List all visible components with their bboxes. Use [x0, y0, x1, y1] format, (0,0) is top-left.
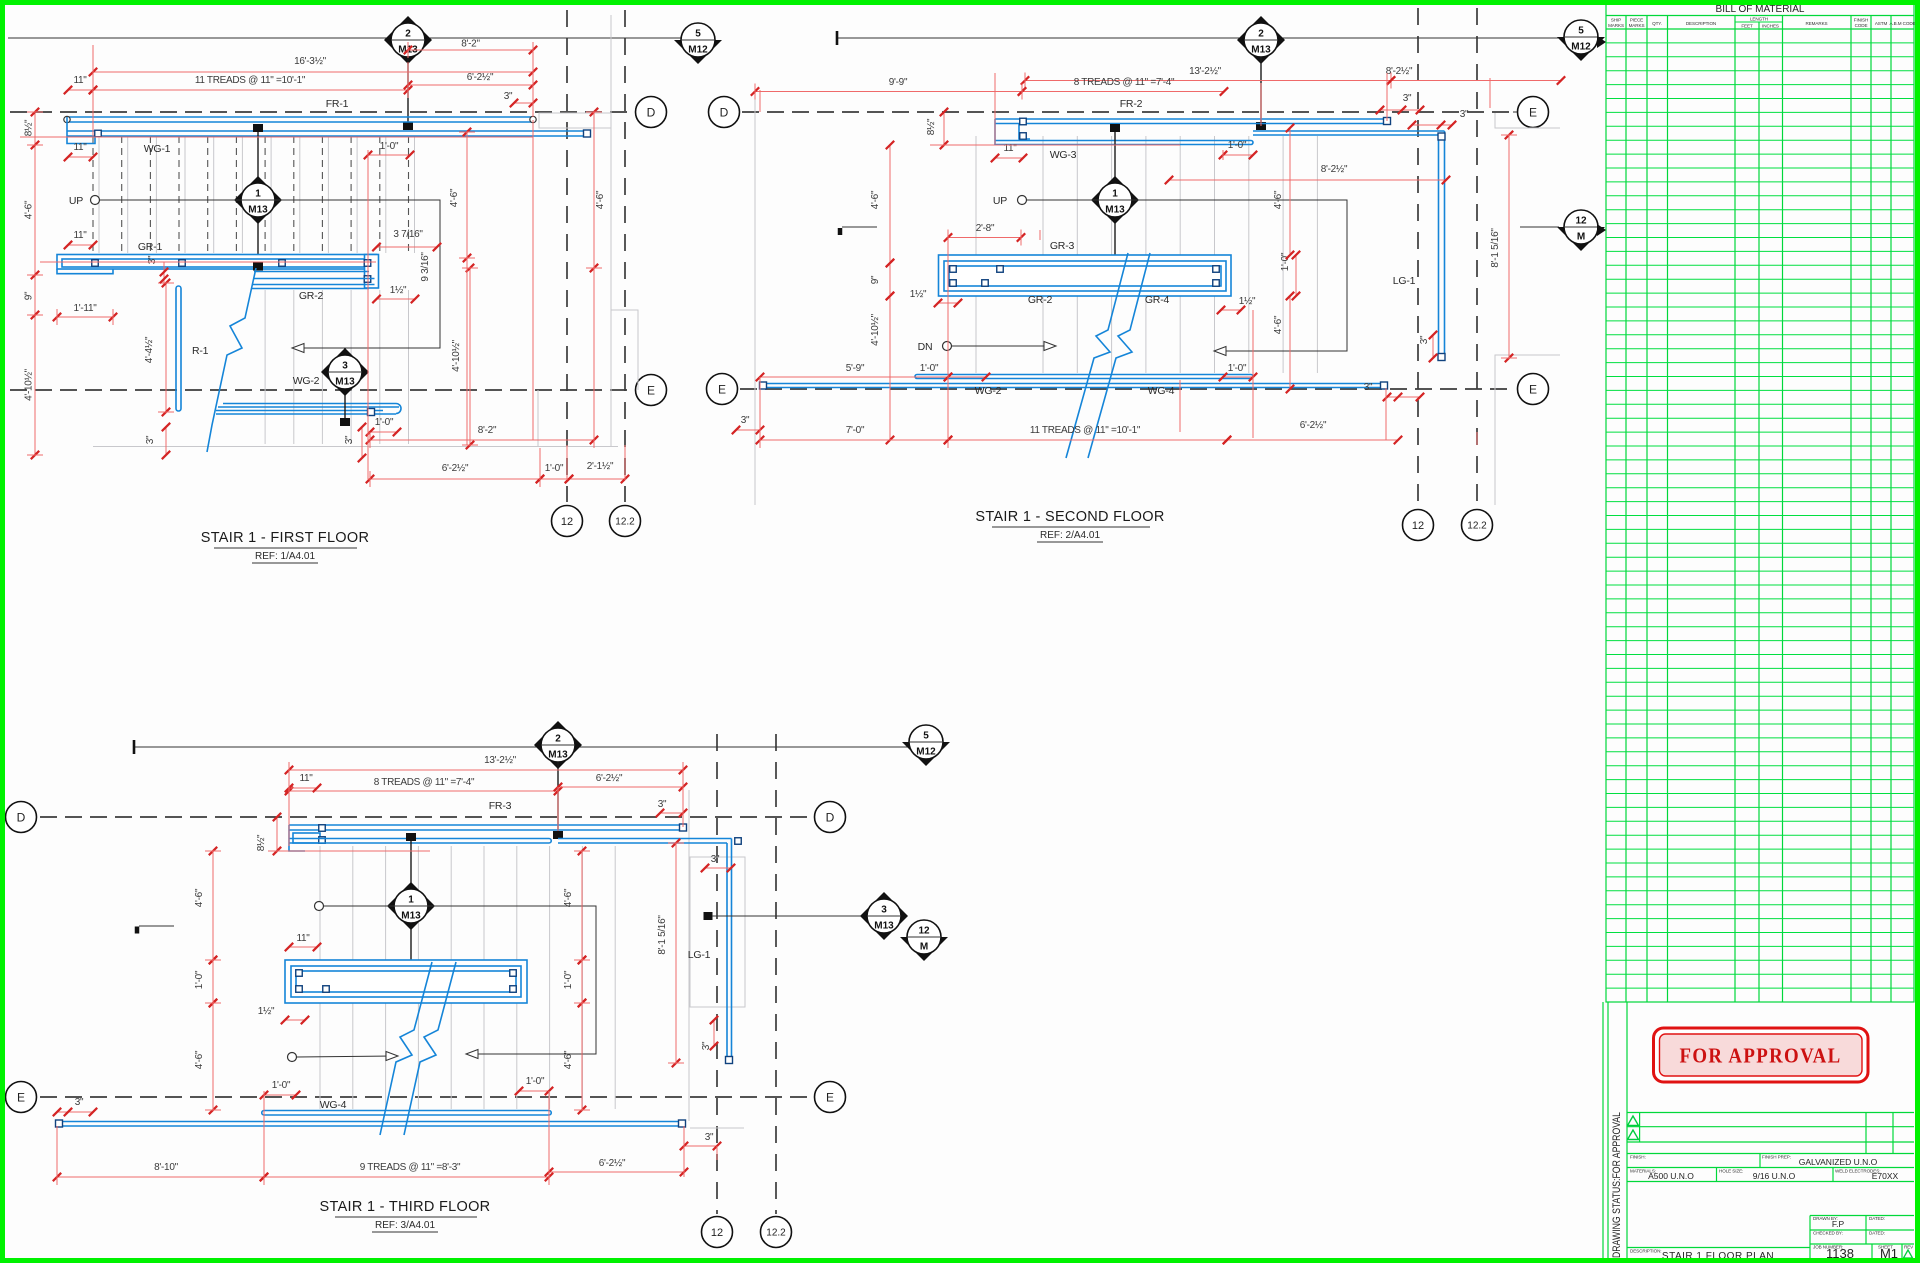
svg-text:4'-6": 4'-6" — [449, 188, 460, 207]
svg-text:1: 1 — [255, 189, 261, 200]
dimension 3 top right (third floor) — [660, 812, 683, 814]
grid bubble E (third floor left) — [6, 1082, 37, 1113]
svg-text:CODE: CODE — [1855, 23, 1868, 28]
svg-text:GR-3: GR-3 — [1050, 240, 1075, 252]
svg-text:4'-6": 4'-6" — [595, 190, 606, 209]
dimension 3 (first floor top right) — [514, 102, 533, 104]
stringer WG-4 upper chord (third floor) — [264, 1110, 549, 1112]
stringer WG-4 long chord (third floor) — [57, 1121, 684, 1123]
svg-text:9 3/16": 9 3/16" — [420, 252, 431, 282]
svg-text:6'-2½": 6'-2½" — [442, 463, 469, 474]
svg-text:3": 3" — [1364, 382, 1373, 393]
red extension lines (first floor) — [93, 45, 625, 480]
BOM table row lines — [1606, 43, 1914, 988]
stringer FR-2 top flange (second floor) — [995, 118, 1387, 120]
leader to balloon 3/M13 (third floor) — [704, 912, 713, 920]
svg-text:4'-6": 4'-6" — [870, 190, 881, 209]
svg-text:13'-2½": 13'-2½" — [1189, 66, 1221, 77]
section balloon 5/M12 (third floor) — [902, 742, 950, 766]
svg-text:9'-9": 9'-9" — [889, 77, 908, 88]
svg-text:M12: M12 — [1571, 42, 1591, 53]
svg-text:1'-0": 1'-0" — [194, 970, 205, 989]
section balloon 1/M13 (third floor) — [410, 840, 412, 970]
grid bubble 12.2 (first floor) — [610, 506, 641, 537]
svg-text:8'-2": 8'-2" — [461, 39, 480, 50]
svg-text:M12: M12 — [688, 45, 708, 56]
svg-text:8½": 8½" — [24, 119, 35, 136]
svg-text:6'-2½": 6'-2½" — [467, 72, 494, 83]
left dimension chain (first floor) — [34, 112, 36, 455]
grid line 12.2 (second floor) — [1476, 8, 1478, 508]
stringer FR-1 lower chord (first floor) — [67, 130, 587, 132]
svg-text:2: 2 — [405, 29, 411, 40]
svg-text:DN: DN — [918, 341, 933, 353]
red extension lines (second floor) — [760, 73, 1509, 445]
svg-text:1'-0": 1'-0" — [545, 463, 564, 474]
svg-text:GR-2: GR-2 — [299, 290, 324, 302]
stringer FR-1/WG-1 top flange (first floor) — [67, 116, 533, 118]
svg-text:7'-0": 7'-0" — [846, 425, 865, 436]
svg-text:DRAWING STATUS:FOR APPROVAL: DRAWING STATUS:FOR APPROVAL — [1611, 1112, 1623, 1258]
svg-text:FINISH PREP:: FINISH PREP: — [1762, 1155, 1791, 1160]
svg-text:STAIR 1 - SECOND FLOOR: STAIR 1 - SECOND FLOOR — [975, 509, 1164, 525]
svg-text:UP: UP — [993, 195, 1007, 207]
svg-text:3": 3" — [1460, 109, 1469, 120]
svg-text:FOR APPROVAL: FOR APPROVAL — [1680, 1044, 1842, 1068]
svg-text:STAIR 1 - FIRST FLOOR: STAIR 1 - FIRST FLOOR — [201, 530, 370, 546]
svg-text:4'-4½": 4'-4½" — [144, 336, 155, 363]
grid bubble E (second floor left) — [707, 374, 738, 405]
svg-text:8 TREADS @ 11" =7'-4": 8 TREADS @ 11" =7'-4" — [374, 777, 475, 788]
svg-text:1½": 1½" — [910, 289, 927, 300]
svg-text:D: D — [826, 810, 835, 824]
svg-text:4'-6": 4'-6" — [194, 1050, 205, 1069]
svg-text:GR-2: GR-2 — [1028, 294, 1053, 306]
FOR APPROVAL stamp — [1654, 1028, 1869, 1082]
svg-text:E: E — [17, 1090, 25, 1104]
svg-text:6'-2½": 6'-2½" — [599, 1158, 626, 1169]
grid bubble E (second floor top right) — [1518, 97, 1549, 128]
svg-text:WG-1: WG-1 — [144, 143, 171, 155]
dimension 3 top right (second floor) — [1380, 109, 1420, 111]
grid line D (first floor) — [10, 111, 633, 113]
UP arrow path (third floor) — [315, 902, 324, 911]
svg-text:6'-2½": 6'-2½" — [1300, 420, 1327, 431]
svg-text:4'-6": 4'-6" — [194, 888, 205, 907]
revision triangle marker lower (drawing area) — [1597, 224, 1606, 236]
svg-text:FR-1: FR-1 — [326, 98, 349, 110]
grid bubble 12.2 (second floor) — [1462, 510, 1493, 541]
svg-text:D: D — [720, 105, 729, 119]
stringer FR-2 left cap — [994, 119, 996, 145]
dimension 1'-0 bottom left (third floor) — [264, 1094, 296, 1096]
grid bubble D (first floor right) — [636, 97, 667, 128]
wall corner mark (third floor left) — [135, 927, 140, 934]
svg-text:5'-9": 5'-9" — [846, 363, 865, 374]
svg-text:QTY.: QTY. — [1652, 21, 1662, 26]
weld squares girt (second floor) — [950, 266, 957, 273]
svg-text:4'-6": 4'-6" — [1273, 190, 1284, 209]
right dimension 4'-6 outer (first floor) — [593, 112, 595, 268]
svg-text:LG-1: LG-1 — [1393, 275, 1416, 287]
grid line 12 (first floor) — [566, 10, 568, 502]
svg-text:M13: M13 — [248, 205, 268, 216]
svg-text:DESCRIPTION: DESCRIPTION — [1686, 21, 1716, 26]
girt GR-2 channel (first floor) — [254, 271, 369, 273]
svg-text:3": 3" — [741, 415, 750, 426]
svg-text:M: M — [920, 942, 928, 953]
svg-text:GALVANIZED U.N.O: GALVANIZED U.N.O — [1799, 1157, 1878, 1167]
svg-text:8'-1 5/16": 8'-1 5/16" — [657, 915, 668, 955]
stringer WG-3 lower chord (second floor) — [995, 140, 1251, 142]
stringer WG-2/WG-4 long chord (second floor) — [761, 383, 1386, 385]
svg-text:8'-2½": 8'-2½" — [1386, 66, 1413, 77]
stringer FR-3 left cap — [289, 825, 305, 851]
svg-text:WG-2: WG-2 — [975, 385, 1002, 397]
section balloon 1/M13 (first floor) — [257, 130, 259, 262]
section balloon 2/M13 (third floor) — [534, 721, 582, 769]
svg-text:A500 U.N.O: A500 U.N.O — [1648, 1171, 1694, 1181]
svg-text:E: E — [647, 383, 655, 397]
svg-text:REF: 1/A4.01: REF: 1/A4.01 — [255, 551, 315, 562]
dimension 11 TREADS (first floor) — [93, 89, 408, 91]
section line from balloon 2 (second floor) — [1260, 57, 1262, 122]
svg-text:3": 3" — [504, 91, 513, 102]
svg-text:REF: 2/A4.01: REF: 2/A4.01 — [1040, 530, 1100, 541]
svg-text:STAIR 1 - THIRD FLOOR: STAIR 1 - THIRD FLOOR — [320, 1199, 491, 1215]
svg-text:DATED:: DATED: — [1869, 1231, 1885, 1236]
svg-text:3": 3" — [145, 435, 156, 444]
svg-text:11": 11" — [73, 142, 87, 153]
red extension lines (third floor) — [57, 770, 717, 1182]
svg-text:3": 3" — [147, 255, 158, 264]
dimension 11 (second floor) — [995, 157, 1023, 159]
svg-text:4'-6": 4'-6" — [563, 1050, 574, 1069]
svg-text:DATED:: DATED: — [1869, 1216, 1885, 1221]
dimension 11 top left (first floor) — [68, 89, 93, 91]
tread lines (second floor) — [1043, 136, 1317, 373]
svg-text:E: E — [1529, 382, 1537, 396]
svg-text:M12: M12 — [916, 747, 936, 758]
break line (first floor) — [207, 268, 256, 452]
balloon 12/M (third floor) — [900, 937, 948, 961]
grid bubble E (second floor right) — [1518, 374, 1549, 405]
svg-text:BILL OF MATERIAL: BILL OF MATERIAL — [1716, 4, 1805, 15]
svg-text:12: 12 — [711, 1227, 723, 1239]
dimension 1'-11 (first floor) — [57, 316, 113, 318]
dimension 6'-2 1/2 top (third floor) — [558, 786, 683, 788]
svg-text:12: 12 — [1575, 216, 1587, 227]
svg-text:2: 2 — [555, 734, 561, 745]
ledger LG-1 (third floor) — [731, 839, 733, 1063]
svg-text:5: 5 — [923, 731, 929, 742]
weld squares GR-1 — [92, 260, 99, 267]
BOM table outer frame — [1606, 3, 1914, 1002]
section line from balloon 2 (first floor) — [407, 57, 409, 122]
dimension 11 left lower (first floor) — [68, 244, 93, 246]
grid bubble D (second floor left) — [709, 97, 740, 128]
svg-text:6'-2½": 6'-2½" — [596, 773, 623, 784]
svg-text:12.2: 12.2 — [1467, 521, 1487, 532]
BOM table column lines — [1626, 16, 1891, 1003]
gray landing outline (second floor right) — [1495, 113, 1560, 128]
section balloon 3/M13 (first floor) — [344, 348, 346, 418]
svg-text:M13: M13 — [874, 921, 894, 932]
grid line E (first floor) — [10, 389, 633, 391]
svg-text:9/16 U.N.O: 9/16 U.N.O — [1753, 1171, 1796, 1181]
section balloon 5/M12 (second floor) — [1557, 37, 1605, 61]
red dim through stringer (first floor) — [20, 137, 533, 283]
svg-text:A.B.M CODE: A.B.M CODE — [1889, 21, 1915, 26]
svg-text:12.2: 12.2 — [615, 517, 635, 528]
materials row — [1627, 1167, 1914, 1169]
right dimension 4'-10 1/2 inner (first floor) — [469, 268, 471, 445]
section balloon 2/M13 (first floor) — [384, 16, 432, 64]
svg-text:1'-0": 1'-0" — [563, 970, 574, 989]
svg-text:CHECKED BY:: CHECKED BY: — [1813, 1231, 1843, 1236]
gray wall outline (third floor right) — [688, 790, 690, 1121]
svg-text:MARKS: MARKS — [1629, 23, 1645, 28]
svg-text:REMARKS: REMARKS — [1805, 21, 1827, 26]
svg-text:8'-1 5/16": 8'-1 5/16" — [1490, 228, 1501, 268]
svg-text:1: 1 — [408, 895, 414, 906]
right dimension 4'-6 inner (first floor) — [466, 132, 468, 258]
stringer FR-1 left cap (first floor) — [67, 117, 95, 144]
svg-text:9": 9" — [870, 275, 881, 284]
grid bubble 12 (first floor) — [552, 506, 583, 537]
svg-text:11": 11" — [296, 933, 310, 944]
svg-text:3": 3" — [344, 435, 355, 444]
bottom dimensions (first floor) — [370, 431, 397, 433]
dimension 9'-9 (second floor) — [755, 91, 1022, 93]
svg-text:1'-0": 1'-0" — [920, 363, 939, 374]
svg-text:E: E — [1529, 105, 1537, 119]
svg-text:FR-3: FR-3 — [489, 800, 512, 812]
svg-text:LG-1: LG-1 — [688, 949, 711, 961]
dimension 1'-0 (first floor WG-1) — [368, 154, 410, 156]
tread lines (third floor) — [320, 846, 615, 1109]
svg-text:LENGTH: LENGTH — [1750, 17, 1768, 22]
vertical border line left of title strip — [1602, 1002, 1604, 1259]
section balloon 2/M13 (second floor) — [1237, 16, 1285, 64]
svg-text:FR-2: FR-2 — [1120, 98, 1143, 110]
svg-text:M13: M13 — [1251, 45, 1271, 56]
leader to balloon 12/M (second floor) — [1520, 226, 1559, 228]
svg-text:D: D — [647, 105, 656, 119]
svg-text:1'-0": 1'-0" — [526, 1076, 545, 1087]
dimension 13'-2 1/2 (third floor) — [289, 769, 683, 771]
section balloon 3/M13 (third floor) — [860, 892, 908, 940]
job number row — [1810, 1243, 1914, 1245]
svg-text:8'-10": 8'-10" — [154, 1162, 178, 1173]
svg-text:12.2: 12.2 — [766, 1228, 786, 1239]
grid bubble D (third floor right) — [815, 802, 846, 833]
girt GR-1 foot (first floor) — [57, 269, 113, 274]
svg-text:3": 3" — [75, 1097, 84, 1108]
svg-text:DESCRIPTION:: DESCRIPTION: — [1630, 1249, 1661, 1254]
svg-text:FEET: FEET — [1741, 24, 1753, 29]
dimension 1'-0 bottom right (third floor) — [519, 1090, 549, 1092]
svg-text:8'-2½": 8'-2½" — [1321, 164, 1348, 175]
svg-text:11": 11" — [73, 75, 87, 86]
finish row — [1627, 1153, 1914, 1155]
left dimension chain (third floor) — [212, 851, 214, 960]
svg-text:FINISH: FINISH — [1854, 18, 1868, 23]
dimension 8'-2 1/2 top (second floor) — [1391, 80, 1561, 82]
svg-text:5: 5 — [1578, 26, 1584, 37]
svg-text:F.P: F.P — [1832, 1219, 1845, 1229]
dimension 8'-1 5/16 (third floor) — [675, 843, 677, 1063]
section balloon 1/M13 (second floor) — [1114, 130, 1116, 262]
svg-text:1'-0": 1'-0" — [1228, 140, 1247, 151]
dimension 11 top (third floor) — [289, 787, 317, 789]
title block frame — [1627, 1112, 1914, 1114]
dimension 8'-2 1/2 mid (second floor) — [1169, 179, 1446, 181]
svg-text:SHIP: SHIP — [1611, 18, 1621, 23]
svg-text:11 TREADS @ 11" =10'-1": 11 TREADS @ 11" =10'-1" — [1030, 425, 1141, 436]
svg-text:4'-6": 4'-6" — [563, 888, 574, 907]
stringer chord to LG-1 (third floor) — [558, 838, 732, 840]
svg-text:E70XX: E70XX — [1872, 1171, 1899, 1181]
svg-text:8 TREADS @ 11" =7'-4": 8 TREADS @ 11" =7'-4" — [1074, 77, 1175, 88]
svg-text:4'-10½": 4'-10½" — [24, 368, 35, 400]
svg-text:16'-3½": 16'-3½" — [294, 56, 326, 67]
svg-text:9": 9" — [24, 291, 35, 300]
svg-text:3": 3" — [711, 854, 720, 865]
balloon 12/M (second floor) — [1557, 227, 1605, 251]
reference line M13/M12 (second floor) — [837, 37, 1564, 39]
svg-text:WG-4: WG-4 — [1148, 385, 1175, 397]
svg-text:MARKS: MARKS — [1608, 23, 1624, 28]
stringer FR-3 top flange (third floor) — [289, 824, 683, 826]
svg-text:3 7/16": 3 7/16" — [393, 229, 423, 240]
gray wall outline (first floor right) — [539, 113, 611, 128]
grid line E (second floor) — [740, 388, 1513, 390]
landing edge line gray (first floor) — [93, 446, 618, 448]
dimension 13'-2 1/2 (second floor) — [1025, 80, 1391, 82]
reference line M13/M12 (third floor) — [134, 746, 909, 748]
girt GR-1 right cap — [365, 255, 379, 289]
stringer lower chord (third floor) — [289, 838, 549, 840]
revision triangle 1 (title block) — [1628, 1116, 1639, 1126]
svg-text:12: 12 — [918, 926, 930, 937]
section balloon 5/M12 (first floor) — [674, 40, 722, 64]
svg-text:4'-10½": 4'-10½" — [451, 339, 462, 371]
grid bubble E (third floor right) — [815, 1082, 846, 1113]
grid line 12 (third floor) — [716, 734, 718, 1214]
svg-text:5: 5 — [695, 29, 701, 40]
dimension 16'-3 1/2 (first floor) — [93, 71, 533, 73]
grid line 12.2 (third floor) — [775, 734, 777, 1214]
svg-text:R-1: R-1 — [192, 345, 209, 357]
dimension 2'-8 (second floor) — [948, 237, 1021, 239]
svg-text:3": 3" — [658, 799, 667, 810]
svg-text:13'-2½": 13'-2½" — [484, 755, 516, 766]
extension lines top (first floor) — [93, 45, 533, 117]
grid line 12.2 (first floor) — [624, 10, 626, 502]
svg-text:UP: UP — [69, 195, 83, 207]
svg-text:1: 1 — [1112, 189, 1118, 200]
svg-text:HOLE SIZE:: HOLE SIZE: — [1719, 1169, 1743, 1174]
svg-text:12: 12 — [1412, 520, 1424, 532]
svg-text:1'-0": 1'-0" — [272, 1080, 291, 1091]
grid bubble 12 (second floor) — [1403, 510, 1434, 541]
svg-text:3": 3" — [1419, 335, 1430, 344]
right dimension chain (third floor) — [581, 851, 583, 960]
svg-text:11": 11" — [73, 230, 87, 241]
svg-text:PIECE: PIECE — [1630, 18, 1643, 23]
DN arrow path (third floor) — [288, 1053, 297, 1062]
dimension 11 left mid (first floor) — [68, 156, 93, 158]
red dim through stringer (second floor) — [930, 144, 1180, 146]
dimension 8'-1 5/16 (second floor right) — [1508, 135, 1510, 358]
svg-text:12: 12 — [561, 516, 573, 528]
dimension 8 TREADS (second floor) — [1022, 91, 1224, 93]
title strip divider — [1626, 1002, 1628, 1259]
svg-text:E: E — [826, 1090, 834, 1104]
dimension 4'-4 1/2 (first floor) — [165, 283, 167, 412]
svg-text:1'-0": 1'-0" — [1228, 363, 1247, 374]
description row — [1627, 1247, 1810, 1249]
svg-text:M13: M13 — [1105, 205, 1125, 216]
svg-text:4'-6": 4'-6" — [1273, 315, 1284, 334]
tread lines (first floor lower, gray) — [265, 290, 408, 444]
dimension 8'-2 top (first floor) — [408, 49, 533, 51]
grid line E (third floor) — [40, 1096, 812, 1098]
svg-text:M13: M13 — [335, 377, 355, 388]
svg-text:1½": 1½" — [1239, 296, 1256, 307]
ledger LG-1 (second floor) — [1444, 131, 1446, 358]
tread lines (first floor upper flight) — [93, 136, 409, 253]
stringer chord to LG-1 corner (second floor) — [1253, 130, 1445, 132]
dimension 3 left bottom (first floor) — [165, 427, 167, 455]
red dim through stringer (third floor) — [268, 850, 430, 852]
revision triangle 2 (title block) — [1628, 1130, 1639, 1140]
svg-text:INCHES: INCHES — [1762, 24, 1779, 29]
svg-text:3: 3 — [881, 905, 887, 916]
grid line 12 (second floor) — [1417, 8, 1419, 508]
dimension 1'-0 top right (second floor) — [1223, 154, 1253, 156]
svg-text:FINISH:: FINISH: — [1630, 1155, 1646, 1160]
dimension 11 mid (third floor) — [289, 946, 317, 948]
svg-text:GR-4: GR-4 — [1145, 294, 1170, 306]
svg-text:3": 3" — [705, 1132, 714, 1143]
dimension 8 TREADS (third floor) — [289, 790, 558, 792]
svg-text:WG-2: WG-2 — [293, 375, 320, 387]
grid bubble 12.2 (third floor) — [761, 1217, 792, 1248]
dimension 3 right (second floor) — [1412, 124, 1452, 126]
weld squares girt (third floor) — [296, 970, 303, 977]
svg-text:3": 3" — [1403, 93, 1412, 104]
svg-text:ASTM: ASTM — [1875, 21, 1888, 26]
svg-text:WG-3: WG-3 — [1050, 149, 1077, 161]
bottom dimensions (second floor) — [760, 376, 948, 378]
wall corner mark (second floor left) — [838, 228, 843, 235]
svg-text:1½": 1½" — [258, 1006, 275, 1017]
svg-text:11 TREADS @ 11" =10'-1": 11 TREADS @ 11" =10'-1" — [195, 75, 306, 86]
rail R-1 (first floor) — [176, 286, 181, 411]
svg-text:M13: M13 — [401, 911, 421, 922]
svg-text:E: E — [718, 382, 726, 396]
gray wall line (second floor left) — [754, 96, 756, 505]
svg-text:M: M — [1577, 232, 1585, 243]
grid line D (second floor) — [742, 111, 1513, 113]
svg-text:1'-11": 1'-11" — [74, 303, 98, 314]
svg-text:8½": 8½" — [256, 834, 267, 851]
revision triangle marker upper (drawing area) — [1597, 36, 1606, 48]
dimension 3 bottom (third floor) — [684, 1145, 717, 1147]
svg-text:9 TREADS @ 11" =8'-3": 9 TREADS @ 11" =8'-3" — [360, 1162, 461, 1173]
